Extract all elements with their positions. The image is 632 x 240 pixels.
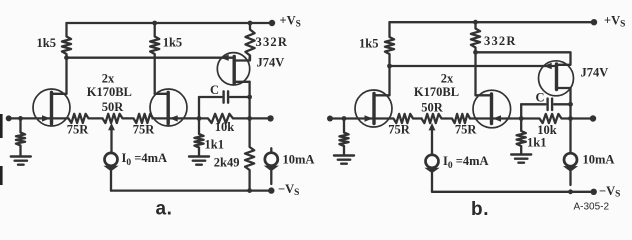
svg-text:332R: 332R: [256, 35, 289, 49]
svg-text:75R: 75R: [455, 123, 478, 137]
ground 1k1 (b): [511, 153, 531, 155]
svg-text:75R: 75R: [133, 123, 156, 137]
junction top rail / 332R (b): [473, 20, 478, 25]
wiper arrow 50R (a): [108, 123, 115, 131]
resistor 1k1 (b): [517, 119, 526, 154]
wire J74V drain down to 10k (a): [248, 97, 250, 118]
resistor 2k49 (a): [245, 118, 254, 190]
transistor Q2 2SK170BL right (a): [150, 89, 187, 126]
transistor Q2 2SK170BL right (b): [473, 90, 511, 128]
wire bottom -Vs rail (a): [111, 189, 271, 191]
node output terminal (b): [590, 115, 596, 121]
ground 1k1 (a): [189, 155, 209, 157]
wire Q2b gate to feedback node (b): [492, 117, 522, 119]
svg-text:C: C: [535, 91, 544, 105]
svg-text:C: C: [210, 83, 219, 97]
current source 10mA (a): [270, 148, 272, 153]
ground input bias (a): [11, 155, 31, 157]
current source I0 4mA (a): [105, 153, 118, 166]
wire I0 to bottom rail (b): [431, 173, 433, 192]
wire I0 to bottom rail (a): [110, 171, 112, 191]
wire Q2a gate to feedback node (a): [168, 117, 199, 119]
resistor 1k5 left (a): [62, 23, 71, 58]
wire Q1b drain up to 1k5 (b): [388, 66, 390, 95]
junction 10k / output (b): [568, 116, 573, 121]
transistor Q1 2SK170BL left (b): [355, 90, 392, 127]
svg-text:−VS: −VS: [599, 184, 620, 200]
svg-text:b.: b.: [471, 199, 489, 220]
svg-text:10mA: 10mA: [583, 153, 615, 167]
transistor Q1 2SK170BL left (a): [33, 89, 70, 126]
wire 332R to J74V source (b): [476, 52, 571, 65]
svg-text:1k5: 1k5: [37, 36, 56, 50]
wire Q1b drain node to J74V gate (b): [390, 65, 557, 67]
node +Vs terminal (a): [269, 20, 275, 26]
junction cap / J74V drain (a): [247, 95, 252, 100]
resistor 10k (a): [199, 114, 250, 123]
current source 10mA (b): [569, 119, 571, 154]
junction 10k / output (a): [247, 116, 252, 121]
ground input bias (b): [334, 154, 354, 156]
wire Q1a drain up to 1k5 (a): [65, 58, 67, 94]
wire output (a): [250, 117, 271, 119]
svg-text:I0 =4mA: I0 =4mA: [122, 151, 168, 168]
svg-text:2x: 2x: [441, 72, 454, 86]
junction 332R / J74V source (b): [473, 50, 478, 55]
resistor 1k5 (b): [385, 22, 394, 66]
wire top +Vs rail (b): [390, 21, 595, 23]
node +Vs terminal (b): [591, 19, 597, 25]
svg-text:a.: a.: [156, 199, 173, 220]
node input terminal (b): [327, 116, 333, 122]
svg-text:50R: 50R: [102, 100, 125, 114]
svg-text:K170BL: K170BL: [414, 85, 459, 99]
svg-text:1k1: 1k1: [527, 136, 546, 150]
resistor 75R right (b): [446, 114, 492, 123]
svg-text:1k1: 1k1: [205, 137, 224, 151]
svg-text:+VS: +VS: [604, 14, 625, 30]
svg-text:+VS: +VS: [280, 14, 301, 30]
wire cap left to feedback node (a): [198, 97, 200, 118]
wiper arrow 50R (b): [429, 123, 436, 130]
potentiometer 50R (b): [422, 114, 447, 123]
junction cap / J74V drain (b): [568, 102, 573, 107]
node output terminal (a): [267, 115, 273, 121]
svg-text:75R: 75R: [388, 123, 411, 137]
junction top rail / 332R (a): [248, 21, 253, 26]
resistor 10k (b): [521, 114, 570, 123]
junction input / bias resistor (a): [18, 116, 23, 121]
wire input to gate (b): [330, 117, 374, 119]
wire Q2a source to 75R (a): [153, 117, 169, 119]
junction 2k49 / bottom rail (a): [247, 188, 252, 193]
resistor 75R left (b): [374, 114, 422, 123]
svg-text:332R: 332R: [484, 34, 517, 48]
wire Q1a drain node to J74V gate (a): [67, 57, 234, 59]
svg-text:1k5: 1k5: [163, 36, 182, 50]
node -Vs terminal (b): [591, 189, 597, 195]
resistor gate bias (b): [339, 119, 348, 155]
svg-text:10k: 10k: [215, 120, 235, 134]
svg-text:2k49: 2k49: [214, 156, 240, 170]
svg-text:I0 =4mA: I0 =4mA: [443, 154, 489, 171]
edge mark lower left: [0, 166, 3, 185]
svg-text:10mA: 10mA: [283, 153, 315, 167]
transistor J74V (a): [217, 53, 249, 85]
resistor 75R right (a): [127, 114, 154, 123]
junction input / bias resistor (b): [342, 116, 347, 121]
resistor 1k1 (a): [194, 118, 203, 155]
svg-text:2x: 2x: [102, 72, 115, 86]
wire J74V drain down to 10k (b): [569, 104, 571, 118]
potentiometer 50R (a): [98, 114, 127, 123]
svg-text:J74V: J74V: [257, 56, 285, 70]
capacitor C (a): [199, 96, 222, 98]
svg-text:1k5: 1k5: [359, 37, 378, 51]
node input terminal (a): [6, 115, 12, 121]
junction 1k5 left / drain line (a): [64, 55, 69, 60]
svg-text:50R: 50R: [421, 100, 444, 114]
svg-text:J74V: J74V: [581, 66, 609, 80]
transistor J74V (b): [539, 61, 574, 96]
junction feedback node (a): [197, 116, 202, 121]
junction 1k5 / gate line (b): [387, 64, 392, 69]
junction feedback node (b): [519, 116, 524, 121]
wire input to gate (a): [9, 117, 52, 119]
svg-text:A-305-2: A-305-2: [574, 201, 610, 212]
svg-text:75R: 75R: [67, 123, 90, 137]
wire bottom -Vs rail (b): [432, 191, 594, 193]
resistor 332R (b): [471, 22, 480, 52]
wire cap left to feedback node (b): [520, 104, 522, 118]
edge mark upper left: [0, 114, 3, 138]
wire top +Vs rail (circuit a): [67, 22, 273, 24]
wire 332R down to Q2b drain (b): [474, 52, 476, 95]
svg-text:K170BL: K170BL: [87, 85, 132, 99]
node -Vs terminal (a): [268, 187, 274, 193]
resistor 1k5 right (a): [150, 23, 159, 94]
resistor gate bias (a): [16, 118, 25, 155]
capacitor C (b): [521, 103, 545, 105]
current source I0 4mA (b): [426, 155, 439, 168]
junction 10mA / bottom rail (b): [568, 189, 573, 194]
svg-text:−VS: −VS: [278, 182, 299, 198]
junction top rail / 1k5 right (a): [152, 21, 157, 26]
wire output (b): [571, 117, 594, 119]
resistor 75R left (a): [52, 114, 99, 123]
resistor 332R (a): [245, 23, 254, 60]
